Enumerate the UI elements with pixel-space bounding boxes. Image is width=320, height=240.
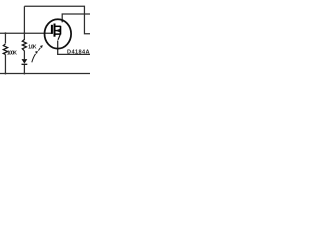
resistor R2 zigzag	[22, 40, 26, 51]
svg-text:D4184A: D4184A	[67, 50, 90, 56]
wire gate net	[0, 32, 51, 34]
LED LED1 cathode bar	[22, 63, 28, 65]
svg-text:1.0K: 1.0K	[28, 45, 37, 51]
transistor Q1 gate bar	[51, 25, 53, 34]
wire LED1 anode lead	[23, 51, 25, 59]
wire R1 bottom lead	[4, 55, 6, 74]
wire LED1 cathode lead	[23, 65, 25, 74]
LED LED1 emission arrow 1	[32, 54, 36, 63]
wire source	[58, 41, 90, 55]
node junction gate/R2 branch	[23, 32, 25, 34]
node junction R1/bottom rail	[4, 73, 6, 75]
transistor Q1 circle	[45, 19, 72, 48]
LED LED1 triangle	[22, 59, 28, 64]
svg-text:100K: 100K	[7, 50, 17, 56]
wire left vertical from top rail to R2	[23, 6, 25, 40]
transistor Q1 source stub	[55, 33, 61, 35]
node junction gate/R1	[4, 32, 6, 34]
wire R1 top lead	[4, 33, 6, 43]
transistor Q1 drain stub	[55, 25, 61, 27]
transistor Q1 drain-source rail	[60, 26, 62, 35]
transistor Q1 drain internal lead	[61, 20, 63, 23]
wire bottom rail	[0, 73, 90, 75]
transistor Q1 body stub	[55, 30, 61, 32]
wire top rail	[24, 6, 90, 33]
node junction LED/bottom rail	[23, 73, 25, 75]
transistor Q1 body diode arrow	[55, 29, 60, 33]
resistor R1 zigzag	[3, 44, 7, 55]
transistor Q1 channel bar	[54, 24, 56, 37]
LED LED1 emission arrow 2	[38, 48, 40, 51]
wire drain	[62, 14, 90, 21]
transistor Q1 source internal lead	[58, 34, 60, 39]
